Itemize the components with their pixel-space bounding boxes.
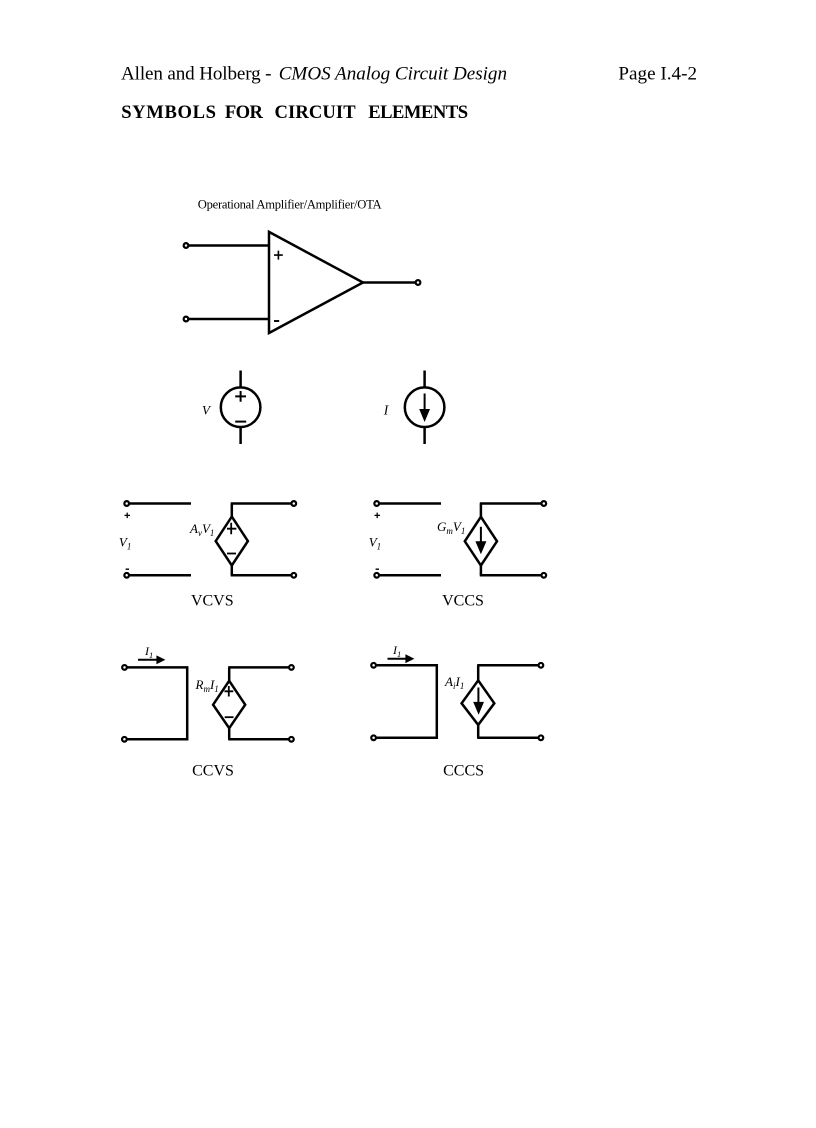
wire: op-amp inverting input bbox=[189, 318, 269, 321]
label: VCVS input - bbox=[126, 568, 129, 570]
terminal: VCVS output bottom bbox=[291, 573, 296, 578]
terminal: op-amp output bbox=[416, 280, 421, 285]
wire: I source bottom lead bbox=[423, 427, 426, 444]
wire: CCVS input loop bbox=[128, 667, 188, 739]
voltage source V circle bbox=[221, 387, 261, 427]
wire: CCCS output top bbox=[477, 664, 538, 667]
current source I arrow bbox=[419, 394, 430, 423]
terminal: CCCS input bottom bbox=[371, 735, 376, 740]
label: VCCS input - bbox=[376, 568, 379, 570]
svg-text:Operational Amplifier/Amplifie: Operational Amplifier/Amplifier/OTA bbox=[198, 198, 382, 212]
wire: V source top lead bbox=[239, 371, 242, 388]
terminal: CCVS output top bbox=[289, 665, 294, 670]
wire: VCVS input top bbox=[130, 502, 191, 505]
CCCS current arrow bbox=[388, 654, 415, 663]
wire: op-amp noninverting input bbox=[189, 244, 269, 247]
current source I circle bbox=[405, 387, 445, 427]
terminal: VCVS input top bbox=[124, 501, 129, 506]
wire: CCVS bottom stub bbox=[228, 727, 231, 739]
terminal: CCVS input bottom bbox=[122, 737, 127, 742]
terminal: CCCS output bottom bbox=[539, 735, 544, 740]
CCVS diamond source bbox=[213, 681, 245, 728]
wire: CCCS bottom stub bbox=[477, 724, 480, 738]
CCVS diamond plus bbox=[225, 686, 234, 697]
svg-text:CMOS Analog Circuit Design: CMOS Analog Circuit Design bbox=[279, 63, 507, 84]
label: VCCS input + bbox=[375, 513, 381, 519]
wire: VCVS output bottom bbox=[231, 574, 291, 577]
wire: VCCS input bottom bbox=[380, 574, 441, 577]
wire: CCCS output bottom bbox=[477, 737, 538, 740]
svg-text:Page I.4-2: Page I.4-2 bbox=[618, 63, 697, 84]
wire: VCVS output top bbox=[231, 502, 291, 505]
terminal: VCCS input top bbox=[374, 501, 379, 506]
wire: VCVS input bottom bbox=[130, 574, 191, 577]
wire: VCVS top stub bbox=[231, 504, 234, 518]
wire: CCCS top stub bbox=[477, 665, 480, 681]
VCCS diamond arrow bbox=[475, 527, 486, 555]
wire: V source bottom lead bbox=[239, 427, 242, 444]
wire: VCCS output top bbox=[480, 502, 541, 505]
terminal: VCCS output top bbox=[541, 501, 546, 506]
terminal: VCCS input bottom bbox=[374, 573, 379, 578]
terminal: CCVS output bottom bbox=[289, 737, 294, 742]
wire: VCCS output bottom bbox=[480, 574, 541, 577]
svg-text:Allen and Holberg -: Allen and Holberg - bbox=[121, 63, 272, 84]
svg-text:CCCS: CCCS bbox=[443, 763, 484, 780]
wire: op-amp output bbox=[363, 281, 415, 284]
wire: CCVS output top bbox=[228, 666, 288, 669]
svg-text:CCVS: CCVS bbox=[192, 763, 234, 780]
terminal: CCVS input top bbox=[122, 665, 127, 670]
VCCS diamond source bbox=[465, 517, 497, 566]
wire: VCCS bottom stub bbox=[480, 565, 483, 576]
CCVS diamond minus bbox=[225, 716, 234, 718]
wire: CCVS output bottom bbox=[228, 738, 288, 741]
terminal: CCCS input top bbox=[371, 663, 376, 668]
wire: CCVS top stub bbox=[228, 667, 231, 682]
VCVS diamond minus bbox=[227, 553, 236, 555]
op-amp + input label bbox=[274, 251, 283, 260]
wire: VCVS bottom stub bbox=[231, 565, 234, 576]
op-amp U1 triangle bbox=[269, 232, 363, 333]
terminal: CCCS output top bbox=[539, 663, 544, 668]
CCCS diamond arrow bbox=[473, 688, 484, 715]
terminal: op-amp inverting input bbox=[184, 317, 189, 322]
svg-text:VCCS: VCCS bbox=[442, 593, 484, 610]
voltage source V plus bbox=[235, 391, 246, 402]
terminal: op-amp noninverting input bbox=[184, 243, 189, 248]
wire: I source top lead bbox=[423, 371, 426, 388]
CCVS current arrow bbox=[138, 655, 165, 664]
terminal: VCVS output top bbox=[291, 501, 296, 506]
CCCS diamond source bbox=[462, 680, 495, 725]
wire: VCCS input top bbox=[380, 502, 441, 505]
VCVS diamond plus bbox=[227, 523, 236, 534]
op-amp - input label bbox=[274, 320, 279, 322]
wire: VCCS top stub bbox=[480, 504, 483, 518]
terminal: VCCS output bottom bbox=[541, 573, 546, 578]
voltage source V minus bbox=[235, 421, 246, 423]
svg-text:VCVS: VCVS bbox=[191, 593, 234, 610]
VCVS diamond source bbox=[216, 517, 248, 566]
label: VCVS input + bbox=[125, 513, 131, 519]
wire: CCCS input loop bbox=[377, 665, 437, 738]
terminal: VCVS input bottom bbox=[124, 573, 129, 578]
svg-text:SYMBOLSFORCIRCUITELEMENTS: SYMBOLSFORCIRCUITELEMENTS bbox=[121, 102, 468, 123]
